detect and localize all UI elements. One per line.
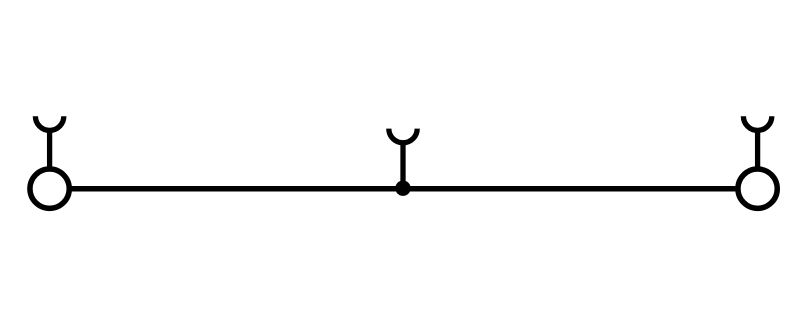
test-plug fork right (743, 116, 771, 130)
wire: left terminal stem (47, 129, 52, 173)
wire: main horizontal bus (50, 186, 758, 192)
terminal circle right (738, 169, 777, 208)
wire: right terminal stem (755, 129, 760, 173)
test-plug fork center (389, 129, 417, 143)
test-plug fork left (35, 116, 63, 130)
wire: center tap stem (400, 141, 405, 188)
terminal circle left (30, 169, 69, 208)
junction dot (395, 181, 410, 196)
